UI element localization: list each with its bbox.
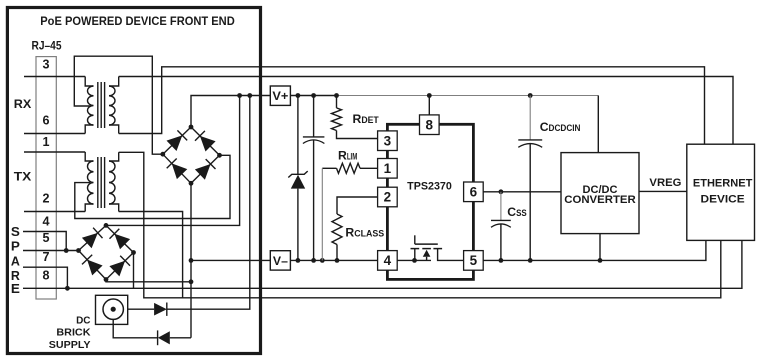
- diode bridge D2 (spare pairs): [76, 223, 136, 282]
- diode bridge D1 (RX/TX pairs): [160, 125, 222, 186]
- ethernet device block: [687, 144, 755, 240]
- junction V- Css: [499, 258, 504, 263]
- svg-text:R: R: [11, 269, 20, 283]
- svg-text:CSS: CSS: [507, 205, 526, 219]
- wire V- rail right of TPS: [483, 240, 706, 260]
- wire pin4 to FET body: [397, 259, 431, 261]
- DC/DC converter block: [561, 153, 639, 234]
- pin number 6: [43, 113, 50, 128]
- svg-text:S: S: [11, 225, 20, 239]
- junction V- cap: [311, 258, 316, 263]
- svg-text:5: 5: [470, 253, 478, 268]
- TPS2370 pin 4: [378, 251, 398, 271]
- svg-text:2: 2: [384, 190, 392, 205]
- svg-text:DC: DC: [76, 314, 91, 326]
- svg-text:RJ–45: RJ–45: [32, 41, 63, 53]
- pin number 2: [43, 191, 50, 206]
- svg-text:V+: V+: [272, 91, 288, 103]
- svg-text:4: 4: [43, 214, 51, 229]
- pin number 8: [43, 268, 50, 283]
- svg-text:TX: TX: [14, 170, 32, 184]
- junction V- Cdcdcin: [528, 258, 533, 263]
- junction V- zener: [296, 258, 301, 263]
- label RCLASS: [345, 226, 384, 240]
- wire RJ45 pin 5: [23, 250, 79, 252]
- label TPS2370: [407, 181, 452, 193]
- svg-text:PoE POWERED DEVICE FRONT END: PoE POWERED DEVICE FRONT END: [40, 14, 235, 28]
- svg-text:V–: V–: [273, 256, 289, 268]
- label DC BRICK SUPPLY: [49, 314, 91, 351]
- junction V+ cap: [311, 93, 316, 98]
- pin number 1: [43, 134, 50, 149]
- TPS2370 pin 6: [464, 182, 484, 202]
- junction D2- on V- vertical: [189, 279, 194, 284]
- pin number 4: [43, 214, 51, 229]
- zener diode (TVS): [288, 96, 307, 261]
- capacitor CDCDCIN: [518, 96, 542, 261]
- wire RJ45 pin 3: [24, 76, 85, 78]
- label CDCDCIN: [540, 120, 581, 134]
- svg-text:7: 7: [43, 249, 50, 264]
- wire pin6 to DC/DC converter: [483, 191, 561, 193]
- wire T1 secondary top to ethernet (upper data rail B): [119, 77, 733, 145]
- junction V- dcdc: [598, 258, 603, 263]
- svg-text:1: 1: [43, 134, 50, 149]
- TPS2370 pin 3 (DET): [378, 131, 398, 151]
- svg-text:P: P: [11, 240, 20, 254]
- transformer T2 secondary winding: [109, 152, 119, 211]
- svg-text:RDET: RDET: [353, 112, 380, 126]
- wire T2 center tap to bridge D1 right input: [75, 155, 230, 218]
- transformer T2 primary winding: [85, 152, 93, 212]
- wire T2 secondary top to ethernet (lower data rail): [119, 152, 721, 297]
- svg-text:CDCDCIN: CDCDCIN: [540, 120, 581, 134]
- svg-text:E: E: [11, 282, 20, 296]
- svg-text:CONVERTER: CONVERTER: [564, 194, 636, 206]
- wire RJ45 pin 6: [24, 133, 85, 135]
- label TX: [14, 170, 32, 184]
- svg-text:TPS2370: TPS2370: [407, 181, 452, 193]
- PoE powered device front-end enclosure box: [7, 8, 260, 354]
- wire VREG: [639, 190, 687, 192]
- svg-text:2: 2: [43, 191, 50, 206]
- wire RJ45 pin 4: [23, 232, 66, 251]
- wire T1 center tap to bridge D1 left input: [74, 56, 163, 154]
- junction pins 7-8: [65, 286, 70, 291]
- junction V+ Rdet: [334, 93, 339, 98]
- svg-text:VREG: VREG: [649, 177, 681, 189]
- svg-text:6: 6: [43, 113, 50, 128]
- transformer T1 core: [98, 82, 105, 128]
- wire bridge D1 bottom (V-) vertical: [190, 183, 192, 337]
- label SPARE (vertical): [11, 225, 20, 296]
- svg-text:DEVICE: DEVICE: [701, 193, 745, 205]
- wire T1 secondary bottom to ethernet (upper data rail A): [119, 67, 705, 144]
- transistor Q1 internal MOSFET: [411, 235, 443, 262]
- svg-text:8: 8: [426, 117, 434, 132]
- svg-text:3: 3: [384, 133, 392, 148]
- wire V+ rail: [191, 96, 337, 128]
- RJ-45 connector body: [36, 57, 56, 299]
- wire bridge D2 top output to V+ rail: [106, 96, 240, 226]
- junction V+ pin8: [427, 93, 432, 98]
- V+ terminal box: [270, 86, 290, 105]
- V- terminal box: [270, 251, 290, 270]
- TPS2370 pin 2 (CLASS): [378, 187, 398, 207]
- title: PoE POWERED DEVICE FRONT END: [40, 14, 235, 28]
- TPS2370 pin 8: [420, 115, 440, 135]
- label RDET: [353, 112, 380, 126]
- wire FET drain to pin5: [438, 249, 464, 261]
- label CSS: [507, 205, 526, 219]
- transformer T1 secondary winding: [109, 77, 119, 134]
- svg-text:ETHERNET: ETHERNET: [693, 177, 753, 189]
- junction Css tap: [499, 189, 504, 194]
- svg-text:6: 6: [470, 185, 478, 200]
- svg-text:RCLASS: RCLASS: [345, 226, 384, 240]
- diode D4 (DC- to V-): [113, 319, 191, 345]
- svg-text:A: A: [11, 254, 20, 268]
- input capacitor: [303, 96, 325, 261]
- resistor RCLASS: [332, 197, 378, 260]
- capacitor CSS: [491, 192, 511, 261]
- wire bridge D2 right input from pins 7/8: [133, 253, 135, 289]
- TPS2370 pin 5: [464, 251, 484, 271]
- label RJ-45: [32, 41, 63, 53]
- svg-text:1: 1: [384, 161, 392, 176]
- wire pin8 to V+ rail: [428, 96, 430, 116]
- resistor RLIM: [322, 163, 377, 260]
- wire RJ45 pin 2: [24, 211, 85, 213]
- svg-text:SUPPLY: SUPPLY: [49, 339, 91, 351]
- svg-text:5: 5: [43, 230, 50, 245]
- pin number 3: [43, 57, 50, 72]
- DC brick supply jack: [96, 295, 128, 324]
- svg-text:RLIM: RLIM: [338, 149, 358, 163]
- junction V- Rlim: [320, 258, 325, 263]
- pin number 5: [43, 230, 50, 245]
- svg-text:RX: RX: [14, 97, 32, 111]
- junction V+ from DC supply: [247, 93, 252, 98]
- transformer T2 core: [98, 157, 105, 208]
- wire DC/DC bottom to V- rail: [599, 234, 601, 261]
- wire T2 secondary bottom to lower data rail: [119, 212, 183, 298]
- resistor RDET: [332, 96, 378, 139]
- wire RJ45 pin 7: [23, 267, 67, 288]
- wire V+ rail thin segment: [337, 96, 599, 153]
- svg-text:8: 8: [43, 268, 50, 283]
- wire RJ45 pin 8 / spare pair to ethernet: [23, 240, 742, 288]
- svg-text:BRICK: BRICK: [56, 327, 91, 339]
- junction V- Rclass: [335, 258, 340, 263]
- label VREG: [649, 177, 681, 189]
- junction V+ zener: [296, 93, 301, 98]
- pin number 7: [43, 249, 50, 264]
- label RX: [14, 97, 32, 111]
- wire V- rail: [191, 259, 378, 261]
- wire RJ45 pin 1: [24, 151, 85, 153]
- junction V- bridge: [189, 258, 194, 263]
- TPS2370 pin 1 (ILIM): [378, 159, 398, 179]
- diode D3 (DC+ to V+): [128, 96, 250, 316]
- svg-text:4: 4: [384, 253, 392, 268]
- op-amp U1 TPS2370 body: [387, 124, 473, 279]
- label RLIM: [338, 149, 358, 163]
- transformer T1 primary winding: [85, 77, 93, 134]
- junction V+ Cdcdcin: [528, 93, 533, 98]
- wire bridge D2 bottom to V- vertical: [106, 280, 191, 282]
- junction V+ from D2: [237, 93, 242, 98]
- svg-text:3: 3: [43, 57, 50, 72]
- junction pins 4-5: [64, 248, 69, 253]
